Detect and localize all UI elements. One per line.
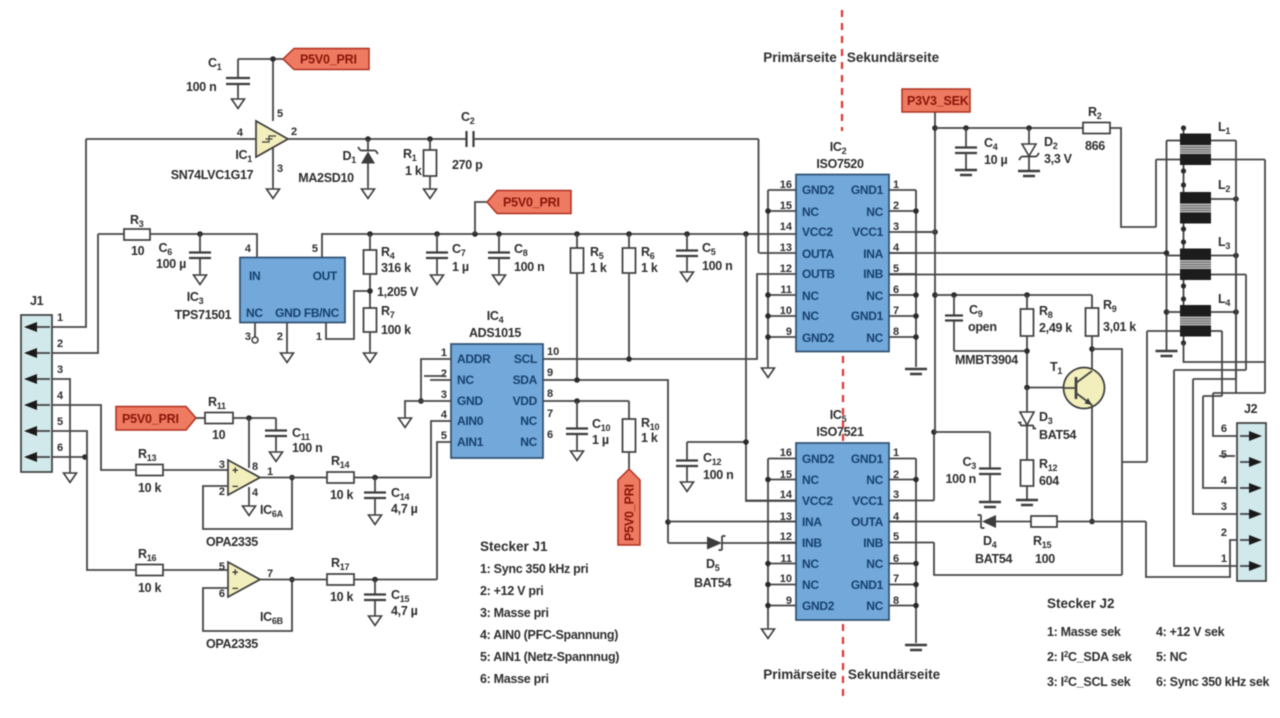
svg-text:1: 1 bbox=[1221, 553, 1227, 565]
capacitor C1 bbox=[186, 56, 250, 96]
resistor R13 10k bbox=[136, 447, 228, 495]
svg-text:100 n: 100 n bbox=[703, 468, 733, 482]
svg-text:10 k: 10 k bbox=[330, 590, 353, 604]
svg-text:SN74LVC1G17: SN74LVC1G17 bbox=[171, 168, 254, 182]
node 1,205 V bbox=[367, 274, 419, 308]
ground at ADS GND bbox=[399, 415, 412, 428]
svg-text:Primärseite: Primärseite bbox=[763, 50, 837, 65]
svg-text:3,01 k: 3,01 k bbox=[1103, 320, 1136, 334]
svg-text:14: 14 bbox=[780, 221, 793, 233]
transistor T1 bbox=[1050, 360, 1105, 409]
wire IC6A feedback loop bbox=[203, 475, 295, 529]
wire R2 to L1 lower winding bbox=[1110, 128, 1156, 227]
svg-text:3: 3 bbox=[441, 389, 447, 401]
ground below C6 bbox=[194, 272, 207, 285]
svg-text:BAT54: BAT54 bbox=[694, 576, 732, 590]
svg-text:4: 4 bbox=[1221, 475, 1228, 487]
svg-text:GND: GND bbox=[275, 306, 301, 320]
svg-text:4: 4 bbox=[57, 390, 64, 402]
svg-text:VCC1: VCC1 bbox=[852, 225, 883, 239]
svg-text:NC: NC bbox=[802, 205, 819, 219]
wire L3 top tap left bbox=[1167, 255, 1181, 257]
svg-text:100 n: 100 n bbox=[946, 472, 976, 486]
svg-text:10: 10 bbox=[547, 346, 559, 358]
ground below IC3 pin2 bbox=[281, 350, 294, 363]
wire IC5 OUTA line bbox=[889, 521, 980, 523]
ground bar below choke column bbox=[1156, 351, 1178, 356]
svg-text:5: 5 bbox=[219, 561, 225, 573]
wire SCL net (pin10 to IC2 OUTB) bbox=[543, 274, 796, 362]
resistor R14 10k bbox=[327, 454, 431, 502]
svg-text:5: AIN1 (Netz-Spannnug): 5: AIN1 (Netz-Spannnug) bbox=[480, 650, 619, 664]
svg-text:5: NC: 5: NC bbox=[1156, 650, 1187, 664]
svg-text:MA2SD10: MA2SD10 bbox=[298, 171, 354, 185]
wire J1.6 to ground bbox=[52, 454, 88, 460]
schottky diode D3 BAT54 bbox=[1018, 388, 1077, 461]
svg-text:5: 5 bbox=[441, 430, 447, 442]
svg-text:P5V0_PRI: P5V0_PRI bbox=[122, 412, 179, 426]
svg-text:OUTA: OUTA bbox=[802, 247, 835, 261]
svg-text:+: + bbox=[232, 567, 238, 579]
wire IC5 INA bbox=[668, 521, 796, 523]
svg-text:P3V3_SEK: P3V3_SEK bbox=[907, 94, 969, 108]
wire IC2 INB to L3 lower winding bbox=[889, 274, 1180, 276]
net separator dashed line (top) bbox=[841, 10, 843, 131]
svg-text:OUTB: OUTB bbox=[802, 267, 835, 281]
connector J1 bbox=[21, 294, 64, 472]
svg-text:1: Sync 350 kHz pri: 1: Sync 350 kHz pri bbox=[480, 562, 588, 576]
resistor R12 604 bbox=[1021, 457, 1060, 499]
svg-text:1: 1 bbox=[267, 466, 273, 478]
capacitor C11 100n bbox=[265, 418, 322, 455]
IC2 right pin stubs bbox=[889, 190, 935, 337]
svg-text:100 n: 100 n bbox=[702, 259, 732, 273]
net flag P5V0_PRI (vertical, at R10) bbox=[618, 469, 640, 545]
svg-text:−: − bbox=[232, 583, 238, 595]
svg-text:P5V0_PRI: P5V0_PRI bbox=[300, 53, 357, 67]
inductor L1 bbox=[1180, 120, 1230, 165]
ground bar IC5 right bbox=[905, 645, 927, 650]
svg-text:14: 14 bbox=[780, 489, 793, 501]
wire J2.2 SDA feed from R15 bbox=[1146, 522, 1237, 578]
wire L1 top tap right bbox=[1211, 140, 1236, 142]
svg-text:604: 604 bbox=[1039, 474, 1059, 488]
svg-text:3: 3 bbox=[277, 163, 283, 175]
wire IC3 OUT to rail bbox=[322, 234, 796, 258]
resistor R6 1k bbox=[623, 231, 658, 359]
svg-text:NC: NC bbox=[520, 435, 537, 449]
wire IC5 INB feedback from T1 collector bbox=[934, 543, 1122, 576]
svg-text:NC: NC bbox=[802, 473, 819, 487]
net flag P3V3_SEK bbox=[902, 89, 970, 112]
ground below IC2 left bus bbox=[762, 365, 775, 378]
svg-text:INB: INB bbox=[863, 267, 883, 281]
ground below C10 bbox=[571, 448, 584, 461]
resistor R7 100k bbox=[364, 304, 412, 350]
net flag P5V0_PRI (opamp supply) bbox=[116, 407, 196, 431]
svg-text:10 k: 10 k bbox=[138, 481, 161, 495]
svg-text:2: I2C_SDA sek: 2: I2C_SDA sek bbox=[1047, 650, 1132, 664]
svg-text:1 k: 1 k bbox=[641, 431, 658, 445]
ground bar below D2 bbox=[1018, 171, 1040, 176]
resistor R17 10k bbox=[327, 556, 437, 604]
svg-text:100 n: 100 n bbox=[186, 80, 216, 94]
svg-text:3: I2C_SCL sek: 3: I2C_SCL sek bbox=[1047, 675, 1131, 689]
svg-text:12: 12 bbox=[780, 263, 792, 275]
svg-text:P5V0_PRI: P5V0_PRI bbox=[623, 484, 637, 541]
svg-text:Primärseite: Primärseite bbox=[763, 667, 837, 682]
svg-text:3: 3 bbox=[893, 489, 899, 501]
svg-text:ISO7521: ISO7521 bbox=[816, 425, 864, 439]
ground below C15 bbox=[369, 613, 382, 626]
svg-text:1 k: 1 k bbox=[590, 261, 607, 275]
svg-text:6: 6 bbox=[219, 588, 225, 600]
ground below R1 bbox=[424, 186, 437, 199]
wire L3 bottom tap right bbox=[1211, 274, 1246, 276]
svg-text:INB: INB bbox=[802, 536, 822, 550]
zener diode D2 3,3V bbox=[1019, 125, 1073, 170]
wire ADS pin1 ADDR to GND bbox=[418, 359, 451, 404]
svg-text:VCC2: VCC2 bbox=[802, 494, 833, 508]
capacitor C4 10u bbox=[955, 125, 1007, 169]
svg-text:2,49 k: 2,49 k bbox=[1039, 321, 1072, 335]
legend Stecker J1 bbox=[480, 539, 619, 686]
ground bar below R12 bbox=[1016, 500, 1038, 505]
resistor R11 10 bbox=[196, 395, 276, 442]
IC5 right pin stubs bbox=[889, 459, 934, 606]
svg-text:6: Sync 350 kHz sek: 6: Sync 350 kHz sek bbox=[1156, 675, 1269, 689]
capacitor C10 1u bbox=[566, 401, 610, 448]
svg-text:100: 100 bbox=[1035, 552, 1055, 566]
ground below D1 bbox=[362, 186, 375, 199]
wire J1.3 to ground bbox=[52, 379, 70, 470]
wire L2 top tap right bbox=[1211, 196, 1239, 202]
wire IC2 INA to L3 bbox=[889, 252, 1167, 254]
wire stack bottom to right column bbox=[1184, 343, 1266, 362]
op-amp IC6B OPA2335 bbox=[206, 561, 284, 651]
svg-text:8: 8 bbox=[547, 388, 553, 400]
svg-text:FB/NC: FB/NC bbox=[304, 306, 340, 320]
svg-text:GND: GND bbox=[457, 394, 483, 408]
wire L4 top tap right bbox=[1211, 309, 1239, 315]
ground below C1 bbox=[232, 96, 245, 109]
svg-text:4: AIN0 (PFC-Spannung): 4: AIN0 (PFC-Spannung) bbox=[480, 628, 618, 642]
svg-text:1,205 V: 1,205 V bbox=[377, 285, 419, 299]
resistor R16 10k bbox=[136, 547, 228, 595]
svg-text:9: 9 bbox=[547, 367, 553, 379]
ground below R7 bbox=[364, 350, 377, 363]
wire IC5 VCC1 to C3 node bbox=[931, 429, 937, 500]
svg-text:6: 6 bbox=[1221, 423, 1227, 435]
ground below C5 bbox=[681, 269, 694, 282]
svg-text:5: 5 bbox=[893, 531, 899, 543]
wire L1 bottom tap right bbox=[1211, 159, 1265, 161]
svg-text:IN: IN bbox=[249, 269, 260, 283]
net flag P5V0_PRI (top) bbox=[283, 49, 369, 70]
wire VDD net bbox=[543, 398, 629, 404]
svg-text:2: +12 V pri: 2: +12 V pri bbox=[480, 584, 543, 598]
wire P3V3 rail bbox=[935, 127, 1083, 129]
wire VCC1(IC2) node bbox=[916, 231, 935, 233]
digital isolator IC2 ISO7520 bbox=[780, 140, 900, 352]
wire IC2 VCC1 to P3V3 bbox=[932, 229, 938, 235]
schottky diode D4 BAT54 bbox=[975, 515, 1031, 566]
svg-text:2: 2 bbox=[57, 338, 63, 350]
resistor R15 100 bbox=[1031, 516, 1146, 566]
capacitor C3 100n bbox=[934, 432, 1001, 501]
inductor L4 bbox=[1180, 292, 1230, 337]
svg-text:4: 4 bbox=[252, 487, 259, 499]
svg-text:2: 2 bbox=[219, 486, 225, 498]
svg-text:NC: NC bbox=[520, 414, 537, 428]
wire J2.4 +12V feed bbox=[1203, 331, 1237, 488]
svg-text:J2: J2 bbox=[1244, 402, 1258, 416]
wire J1.1 to sync net bbox=[52, 139, 86, 327]
svg-text:2: 2 bbox=[277, 331, 283, 343]
wire IC1 out to D1,R1,C2 bbox=[288, 136, 466, 142]
svg-text:3,3 V: 3,3 V bbox=[1044, 152, 1073, 166]
capacitor C14 4.7u bbox=[364, 478, 418, 517]
svg-text:AIN1: AIN1 bbox=[457, 435, 484, 449]
svg-text:VCC1: VCC1 bbox=[852, 494, 883, 508]
svg-text:BAT54: BAT54 bbox=[975, 552, 1013, 566]
wire IC6B output bbox=[260, 579, 327, 581]
wire L1 lower right drop bbox=[1264, 160, 1266, 394]
svg-text:6: Masse pri: 6: Masse pri bbox=[480, 672, 549, 686]
wire J2.3 feed bbox=[1193, 256, 1237, 515]
wire J1.5 AIN1 source bbox=[52, 431, 136, 570]
svg-text:ISO7520: ISO7520 bbox=[816, 157, 864, 171]
svg-text:100 n: 100 n bbox=[292, 441, 322, 455]
diode D5 BAT54 bbox=[668, 536, 796, 590]
wire C2 to IC2 OUTA bbox=[758, 139, 760, 253]
digital isolator IC5 ISO7521 bbox=[780, 408, 900, 620]
wire IC3 pin2 to ground bbox=[286, 323, 288, 351]
svg-text:NC: NC bbox=[866, 557, 883, 571]
svg-text:1: 1 bbox=[441, 347, 447, 359]
wire SDA net (pin9 to IC5 INA) bbox=[543, 377, 671, 543]
svg-text:5: 5 bbox=[57, 416, 63, 428]
svg-text:3: 3 bbox=[57, 364, 63, 376]
svg-text:open: open bbox=[968, 320, 997, 334]
svg-text:Sekundärseite: Sekundärseite bbox=[848, 667, 941, 682]
svg-text:INB: INB bbox=[863, 536, 883, 550]
svg-text:AIN0: AIN0 bbox=[457, 414, 484, 428]
svg-text:1: 1 bbox=[893, 447, 899, 459]
inductor L3 bbox=[1180, 235, 1230, 280]
svg-text:4,7 µ: 4,7 µ bbox=[391, 502, 418, 516]
svg-text:270 p: 270 p bbox=[452, 158, 483, 172]
svg-text:SCL: SCL bbox=[514, 352, 537, 366]
resistor R9 3,01k bbox=[1086, 295, 1137, 370]
svg-text:NC: NC bbox=[866, 473, 883, 487]
svg-text:NC: NC bbox=[866, 331, 883, 345]
svg-text:SDA: SDA bbox=[513, 373, 538, 387]
resistor R4 316k bbox=[364, 231, 412, 275]
wire node P5V0 at IC1 supply bbox=[238, 56, 283, 121]
svg-text:J1: J1 bbox=[30, 294, 44, 308]
capacitor C8 100n bbox=[488, 231, 544, 274]
wire L1 bottom tap left (R2 net) bbox=[1156, 160, 1180, 228]
op-amp buffer IC1 SN74LVC1G17 bbox=[171, 108, 297, 182]
resistor R1 1k bbox=[403, 139, 437, 186]
svg-text:5: 5 bbox=[1221, 449, 1227, 461]
svg-text:Sekundärseite: Sekundärseite bbox=[847, 50, 940, 65]
wire L4 bottom tap right bbox=[1211, 330, 1222, 332]
wire L4 bottom tap left bbox=[1122, 331, 1180, 462]
svg-text:MMBT3904: MMBT3904 bbox=[955, 353, 1018, 367]
svg-text:10 k: 10 k bbox=[330, 488, 353, 502]
svg-text:NC: NC bbox=[866, 599, 883, 613]
wire L4 top tap left bbox=[1167, 311, 1181, 313]
capacitor C2 270p bbox=[452, 110, 759, 172]
resistor R5 1k bbox=[571, 231, 607, 380]
ground below C14 bbox=[369, 512, 382, 525]
svg-text:10 k: 10 k bbox=[138, 581, 161, 595]
resistor R3 10 bbox=[98, 213, 150, 258]
wire ADS pin4 AIN0 bbox=[431, 421, 451, 478]
net flag P5V0_PRI (rail) bbox=[472, 191, 571, 237]
wire P3V3 vertical feed bbox=[932, 112, 938, 432]
svg-text:3: Masse pri: 3: Masse pri bbox=[480, 606, 549, 620]
wire IC6A output bbox=[260, 477, 327, 479]
ground below IC1 bbox=[267, 186, 280, 199]
svg-text:16: 16 bbox=[780, 447, 792, 459]
svg-text:7: 7 bbox=[893, 573, 899, 585]
svg-text:1: 1 bbox=[57, 312, 63, 324]
svg-text:Stecker J2: Stecker J2 bbox=[1047, 596, 1115, 611]
legend Stecker J2 bbox=[1047, 596, 1269, 689]
svg-text:4: 4 bbox=[245, 243, 252, 255]
svg-text:+: + bbox=[232, 465, 238, 477]
inductor L2 bbox=[1180, 178, 1230, 224]
voltage regulator IC3 TPS71501 bbox=[175, 243, 345, 343]
op-amp IC6A OPA2335 bbox=[206, 459, 284, 549]
ground bar below C3 bbox=[979, 502, 1001, 507]
svg-text:P5V0_PRI: P5V0_PRI bbox=[503, 196, 560, 210]
wire R9 node to INB feedback column bbox=[1092, 349, 1122, 575]
svg-text:100 n: 100 n bbox=[514, 260, 544, 274]
svg-text:ADDR: ADDR bbox=[457, 352, 491, 366]
wire T1 emitter to OUTA line bbox=[1089, 405, 1095, 524]
resistor R10 1k bbox=[623, 401, 660, 469]
svg-text:12: 12 bbox=[780, 531, 792, 543]
wire J2.6 sync feed bbox=[1213, 141, 1265, 437]
wire rail drop to IC5 VCC2 bbox=[746, 234, 796, 501]
svg-text:NC: NC bbox=[802, 578, 819, 592]
svg-text:5: 5 bbox=[277, 108, 283, 120]
svg-text:OPA2335: OPA2335 bbox=[206, 535, 258, 549]
svg-text:GND2: GND2 bbox=[802, 183, 835, 197]
IC5 left ground bus bbox=[765, 459, 771, 627]
svg-text:GND2: GND2 bbox=[802, 452, 835, 466]
svg-text:OUT: OUT bbox=[313, 269, 338, 283]
wire ADS pin3 GND bbox=[405, 401, 451, 415]
ground below IC6A bbox=[243, 503, 256, 516]
svg-text:BAT54: BAT54 bbox=[1039, 428, 1077, 442]
svg-text:8: 8 bbox=[252, 461, 258, 473]
svg-text:7: 7 bbox=[547, 408, 553, 420]
resistor R8 2,49k bbox=[1021, 292, 1073, 387]
svg-text:NC: NC bbox=[457, 373, 474, 387]
stub ADS pin2 NC bbox=[424, 376, 451, 380]
svg-text:GND1: GND1 bbox=[851, 309, 884, 323]
capacitor C6 100u bbox=[156, 234, 211, 272]
svg-text:GND1: GND1 bbox=[851, 183, 884, 197]
svg-text:1: Masse sek: 1: Masse sek bbox=[1047, 625, 1121, 639]
svg-text:NC: NC bbox=[802, 309, 819, 323]
ground below IC5 left bus bbox=[762, 626, 775, 639]
IC2 right ground bus bbox=[913, 190, 919, 367]
wire sync line y139 (J1.1 to IC1 in) bbox=[86, 138, 256, 140]
wire J1.2 to R3 bbox=[52, 234, 98, 353]
svg-text:VDD: VDD bbox=[513, 394, 538, 408]
wire T1 base bbox=[1024, 385, 1064, 391]
ADC IC4 ADS1015 bbox=[441, 309, 559, 458]
svg-text:4,7 µ: 4,7 µ bbox=[391, 604, 418, 618]
svg-text:2: 2 bbox=[441, 368, 447, 380]
capacitor C9 open bbox=[945, 292, 1027, 351]
svg-text:10: 10 bbox=[212, 428, 226, 442]
IC2 left ground bus bbox=[765, 190, 771, 365]
svg-text:10: 10 bbox=[131, 244, 145, 258]
svg-text:NC: NC bbox=[802, 289, 819, 303]
svg-text:GND1: GND1 bbox=[851, 452, 884, 466]
svg-text:1: 1 bbox=[316, 331, 322, 343]
diode D1 MA2SD10 bbox=[298, 139, 378, 186]
svg-text:100 k: 100 k bbox=[381, 323, 411, 337]
wire R3 to IC3 IN bbox=[150, 231, 257, 257]
svg-text:316 k: 316 k bbox=[381, 261, 411, 275]
svg-text:NC: NC bbox=[866, 205, 883, 219]
svg-text:GND2: GND2 bbox=[802, 331, 835, 345]
svg-text:10 µ: 10 µ bbox=[984, 153, 1007, 167]
capacitor C15 4.7u bbox=[364, 580, 418, 619]
capacitor C12 100n bbox=[676, 439, 749, 482]
svg-text:2: 2 bbox=[1221, 527, 1227, 539]
net separator dashed line (bottom) bbox=[842, 624, 844, 700]
wire L3 top tap right bbox=[1211, 253, 1239, 259]
wire left ground column bbox=[1164, 141, 1170, 351]
IC2 left pin stubs bbox=[759, 190, 796, 337]
svg-text:5: 5 bbox=[312, 243, 318, 255]
svg-text:100 µ: 100 µ bbox=[156, 257, 186, 271]
svg-text:2: 2 bbox=[291, 126, 297, 138]
wire IC3 pin1 FB to divider bbox=[326, 291, 370, 339]
svg-text:ADS1015: ADS1015 bbox=[469, 326, 521, 340]
svg-text:GND1: GND1 bbox=[851, 578, 884, 592]
svg-text:1 k: 1 k bbox=[405, 164, 422, 178]
svg-text:4: +12 V sek: 4: +12 V sek bbox=[1156, 625, 1225, 639]
svg-text:10: 10 bbox=[780, 573, 792, 585]
svg-text:NC: NC bbox=[246, 306, 263, 320]
svg-text:−: − bbox=[232, 481, 238, 493]
svg-text:NC: NC bbox=[866, 289, 883, 303]
svg-text:INA: INA bbox=[863, 247, 883, 261]
svg-text:OUTA: OUTA bbox=[851, 515, 884, 529]
svg-text:GND2: GND2 bbox=[802, 599, 835, 613]
svg-text:6: 6 bbox=[547, 429, 553, 441]
svg-text:3: 3 bbox=[245, 331, 251, 343]
svg-text:6: 6 bbox=[57, 442, 63, 454]
IC5 left pin stubs bbox=[746, 459, 796, 606]
wire choke series stack bbox=[1181, 125, 1186, 345]
ground bar IC2 right bbox=[905, 369, 927, 374]
ground below C7 bbox=[431, 272, 444, 285]
connector J2 bbox=[1219, 402, 1266, 581]
IC5 right ground bus bbox=[913, 459, 919, 644]
svg-text:1 µ: 1 µ bbox=[452, 260, 469, 274]
